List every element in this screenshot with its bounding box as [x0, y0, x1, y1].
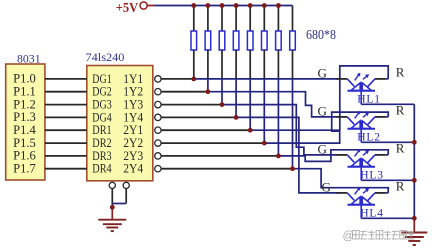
svg-text:R: R	[396, 140, 405, 155]
svg-text:G: G	[318, 66, 327, 81]
svg-text:680*8: 680*8	[306, 27, 336, 42]
svg-text:1Y2: 1Y2	[123, 85, 143, 99]
svg-text:2Y1: 2Y1	[123, 123, 143, 137]
svg-text:R: R	[396, 64, 405, 79]
svg-text:DR1: DR1	[92, 123, 111, 137]
svg-text:HL3: HL3	[360, 169, 383, 181]
svg-text:HL2: HL2	[357, 131, 380, 143]
svg-text:+5V: +5V	[116, 1, 138, 16]
svg-text:G: G	[322, 180, 331, 195]
svg-text:HL1: HL1	[357, 93, 380, 105]
svg-text:P1.4: P1.4	[13, 123, 36, 137]
svg-text:DG2: DG2	[92, 85, 111, 99]
svg-text:8031: 8031	[17, 53, 41, 65]
svg-text:G: G	[318, 142, 327, 157]
svg-text:R: R	[396, 178, 405, 193]
svg-text:G: G	[318, 104, 327, 119]
svg-text:2Y4: 2Y4	[123, 162, 144, 176]
svg-text:HL4: HL4	[360, 207, 383, 219]
svg-text:P1.7: P1.7	[13, 162, 36, 176]
svg-text:R: R	[396, 102, 405, 117]
svg-text:P1.1: P1.1	[13, 85, 36, 99]
svg-text:DR4: DR4	[92, 162, 112, 176]
svg-text:74ls240: 74ls240	[86, 52, 125, 64]
